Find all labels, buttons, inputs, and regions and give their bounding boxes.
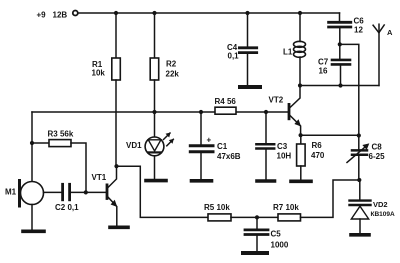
wire tank line (L1/VT2 collector to antenna) <box>300 85 379 87</box>
transistor VT1 <box>92 166 117 226</box>
wire VT1 collector to R5 feed <box>117 166 209 217</box>
resistor R3 <box>48 130 74 147</box>
svg-text:0,1: 0,1 <box>228 52 240 61</box>
node VT1 base / R3 <box>84 190 88 194</box>
svg-text:VT2: VT2 <box>269 96 284 105</box>
wire mid bias rail left segment <box>32 111 215 113</box>
ground (M1) <box>23 230 44 234</box>
wire R3 right lead to VT1 base <box>71 143 86 192</box>
node C8/VD2/R7 <box>357 178 361 182</box>
svg-text:VT1: VT1 <box>92 173 107 182</box>
inductor L1 <box>283 41 306 57</box>
svg-text:R2: R2 <box>166 60 177 69</box>
wire VD2 top lead <box>359 180 361 200</box>
wire C6 bottom lead <box>339 28 341 44</box>
ground (R6) <box>291 180 311 184</box>
svg-text:VD2: VD2 <box>373 200 388 209</box>
node R3 left <box>30 141 34 145</box>
capacitor C6 <box>329 17 365 35</box>
wire C2 to VT1 base <box>71 191 106 193</box>
wire M1 bottom lead <box>31 205 33 231</box>
svg-text:R3 56k: R3 56k <box>48 130 74 139</box>
wire C6 top lead from +V rail <box>339 13 341 22</box>
trimmer capacitor C8 <box>347 143 385 163</box>
resistor R7 <box>273 203 301 221</box>
resistor R1 <box>92 58 121 80</box>
svg-text:+9: +9 <box>37 11 47 20</box>
node L1 top <box>298 11 302 15</box>
ground (VT1 emitter) <box>110 226 128 230</box>
varicap VD2 <box>350 200 396 219</box>
node R2 top <box>152 11 156 15</box>
wire L1 top lead <box>299 13 301 42</box>
svg-text:12: 12 <box>354 26 363 35</box>
svg-text:C5: C5 <box>271 230 282 239</box>
svg-text:+: + <box>207 136 212 145</box>
ground (C5) <box>243 251 267 255</box>
ground (VD2) <box>351 233 369 237</box>
wire C7 bottom lead <box>340 65 342 85</box>
wire R6 top lead <box>300 135 302 144</box>
svg-text:C8: C8 <box>372 143 383 152</box>
svg-text:R7 10k: R7 10k <box>273 203 299 212</box>
capacitor C7 <box>318 58 350 76</box>
svg-text:1000: 1000 <box>271 241 289 250</box>
resistor R5 <box>204 203 231 221</box>
capacitor C3 <box>256 112 291 180</box>
capacitor C5 <box>245 217 289 251</box>
ground (VD1) <box>146 179 166 183</box>
svg-text:C2 0,1: C2 0,1 <box>55 203 79 212</box>
svg-text:C1: C1 <box>217 142 228 151</box>
svg-text:VD1: VD1 <box>126 141 142 150</box>
resistor R2 <box>150 58 179 80</box>
ground (C3) <box>257 179 275 183</box>
power terminal +9..12V <box>73 11 78 16</box>
svg-text:R5 10k: R5 10k <box>204 203 230 212</box>
node VT2 emitter / R6 <box>299 133 303 137</box>
wire VT2 emitter line to C8 column <box>301 134 359 136</box>
wire +V top rail <box>78 12 339 14</box>
svg-text:10k: 10k <box>92 69 106 78</box>
node VT1 collector / R1 <box>114 164 118 168</box>
node VT2 collector / L1 bottom <box>298 83 302 87</box>
LED VD1 <box>126 133 173 156</box>
capacitor C1 (electrolytic) <box>190 112 240 179</box>
svg-text:L1: L1 <box>283 48 293 57</box>
node C8 top / emitter line <box>357 133 361 137</box>
wire C7 top lead <box>339 44 341 59</box>
wire M1 output to C2 <box>44 191 63 193</box>
svg-text:12В: 12В <box>53 11 68 20</box>
svg-text:22k: 22k <box>166 70 180 79</box>
capacitor C2 <box>55 184 79 212</box>
antenna A <box>373 24 393 85</box>
svg-text:47x6B: 47x6B <box>217 152 241 161</box>
wire C8 bottom lead <box>358 156 360 180</box>
transistor VT2 <box>269 86 301 135</box>
wire C6/C7 junction to C8 branch <box>340 44 359 150</box>
svg-text:R4 56: R4 56 <box>215 97 237 106</box>
wire R7 to varicap node <box>301 180 360 217</box>
node C1 top <box>199 110 203 114</box>
ground (C4) <box>240 85 260 89</box>
svg-text:16: 16 <box>319 67 328 76</box>
resistor R4 <box>215 97 237 114</box>
node C3/VT2 base <box>264 110 268 114</box>
wire R2 top lead <box>154 13 156 58</box>
svg-text:470: 470 <box>311 151 325 160</box>
wire VD1 bottom lead <box>154 156 156 179</box>
wire R6 bottom lead <box>300 166 302 180</box>
node R5/R7/C5 <box>255 215 259 219</box>
svg-text:C3: C3 <box>277 142 288 151</box>
svg-text:A: A <box>387 28 393 37</box>
wire R1 top lead <box>115 13 117 58</box>
wire VD1 top lead <box>154 112 156 137</box>
node R1 top <box>114 11 118 15</box>
svg-text:КВ109А: КВ109А <box>371 211 396 218</box>
wire R5 to R7 <box>231 216 278 218</box>
node C6/C7 junction <box>338 42 342 46</box>
ground (C1) <box>192 179 212 183</box>
svg-text:10H: 10H <box>277 152 292 161</box>
wire R3 left lead <box>32 142 49 144</box>
capacitor C4 <box>227 13 257 86</box>
node C4 top <box>245 11 249 15</box>
svg-text:R6: R6 <box>312 141 323 150</box>
wire mid bias rail right segment <box>236 111 289 113</box>
wire R2 bottom lead <box>154 80 156 112</box>
node R2/VD1 on mid rail <box>152 110 156 114</box>
node C7 bottom <box>338 83 342 87</box>
wire left column down to microphone <box>31 112 33 182</box>
svg-text:M1: M1 <box>5 188 17 197</box>
wire VD2 bottom lead <box>359 219 361 233</box>
microphone M1 <box>5 181 44 207</box>
svg-text:C6: C6 <box>354 17 365 26</box>
svg-text:C7: C7 <box>318 58 329 67</box>
wire L1 bottom lead <box>299 57 301 86</box>
wire R1 bottom lead (crosses mid rail, no joint) <box>115 80 117 166</box>
resistor R6 <box>297 141 325 166</box>
svg-text:6-25: 6-25 <box>369 152 386 161</box>
